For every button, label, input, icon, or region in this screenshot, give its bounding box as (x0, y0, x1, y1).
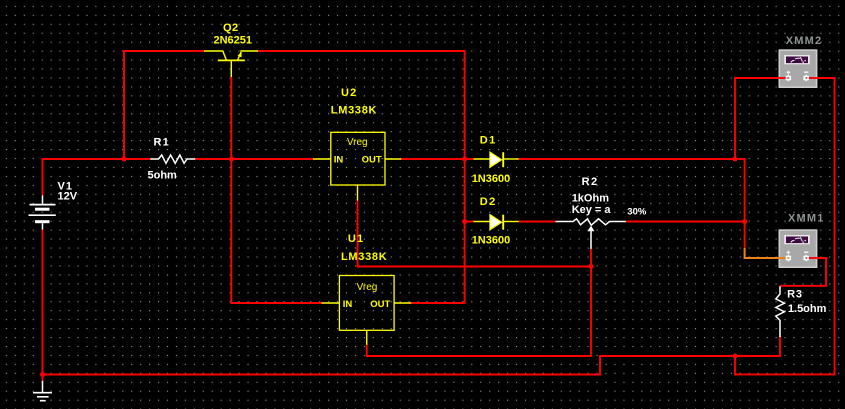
svg-text:1.5ohm: 1.5ohm (788, 303, 827, 315)
svg-text:R3: R3 (787, 288, 803, 300)
wire: wiper node down (590, 266, 592, 357)
node: Q2 base / main rail / U1 IN junction (229, 157, 234, 162)
svg-text:Vreg: Vreg (347, 137, 368, 148)
node: battery / ground rail junction (40, 372, 45, 377)
wire: D2 cathode to R2 (519, 221, 556, 223)
svg-text:U1: U1 (348, 233, 364, 245)
wire: node to D1 anode (464, 158, 474, 160)
svg-text:D1: D1 (480, 134, 497, 146)
wire: R2 wiper red stub (590, 249, 592, 268)
node: riser/main rail junction (122, 157, 127, 162)
svg-text:U2: U2 (341, 87, 357, 99)
wire: bottom right horizontal y=374.4 (734, 373, 835, 375)
op-amp U1 LM338K box (322, 276, 412, 345)
op-amp U2 LM338K box (313, 132, 401, 200)
transistor Q2 (204, 51, 258, 77)
node: D2 / U1 OUT junction (462, 219, 467, 224)
node: ground rail / XMM loop junction (733, 354, 738, 359)
multimeter XMM1 (778, 230, 817, 267)
wire: XMM2 left terminal stub (734, 77, 788, 79)
wire: XMM2 right terminal stub (806, 77, 836, 79)
resistor R1 (150, 155, 195, 163)
svg-text:R2: R2 (582, 176, 599, 188)
svg-text:XMM1: XMM1 (788, 213, 825, 225)
svg-text:5ohm: 5ohm (148, 170, 178, 182)
diode D1 (474, 152, 519, 167)
wire: Q2 base down to main rail (230, 77, 232, 160)
wire: vertical x=744.6 down to XMM1 (744, 158, 746, 249)
wire: node to D2 anode (464, 221, 474, 223)
wire: XMM1 right vertical down (825, 257, 827, 286)
wire: R1 to U2 IN (195, 158, 314, 160)
wire: main horizontal rail y=159 battery to R1 (42, 158, 151, 160)
svg-text:XMM2: XMM2 (786, 35, 823, 47)
wire: horizontal y=356 to U1 ADJ (367, 355, 592, 357)
wire: U2 ADJ vertical (357, 200, 359, 266)
wire: U1 ADJ vertical red (366, 345, 368, 357)
wire: XMM1 left terminal stub (orange) (745, 248, 788, 258)
svg-text:LM338K: LM338K (341, 251, 387, 263)
svg-text:IN: IN (334, 155, 344, 166)
svg-text:R1: R1 (154, 136, 170, 148)
node: U2 OUT / top rail / D1 junction (462, 157, 467, 162)
ground (33, 381, 52, 401)
wire: rail y=356 to R3 bottom (599, 355, 780, 357)
svg-text:1N3600: 1N3600 (472, 235, 511, 247)
wire: top rail right segment y=51 (258, 50, 466, 52)
wire: ground rail horizontal y=374.5 (42, 374, 601, 376)
multimeter XMM2 (778, 50, 817, 87)
wire: R2 right to XMM1 branch (626, 221, 746, 223)
wire: ground stub to ground symbol (42, 375, 44, 382)
svg-text:D2: D2 (480, 196, 497, 208)
node: R2 out / XMM1 junction (742, 219, 747, 224)
wire: to R3 top (780, 285, 827, 287)
wire: vertical riser x=124 to top rail (123, 50, 125, 160)
node: D1 out / XMM2 / XMM1 junction (733, 157, 738, 162)
potentiometer R2 (556, 219, 626, 249)
svg-text:2N6251: 2N6251 (214, 35, 253, 47)
battery V1 (29, 195, 56, 229)
svg-text:Q2: Q2 (223, 22, 239, 34)
wire: U1 OUT to vertical (411, 302, 466, 304)
wire: far right vertical x=834.5 up to XMM2 (834, 78, 836, 375)
wire: XMM1 right terminal stub (806, 257, 827, 259)
diode D2 (474, 215, 519, 230)
svg-text:Key = a: Key = a (572, 204, 612, 216)
wire: node to x=744.6 jog (734, 158, 745, 160)
wire: U2 ADJ horizontal to R2 wiper node (357, 266, 593, 268)
wire: D1 cathode to XMM node (519, 158, 736, 160)
wire: node x=735 down (734, 355, 736, 374)
wire: Q2 base node down to U1 IN row (230, 158, 232, 303)
svg-text:IN: IN (343, 299, 353, 310)
svg-text:1kOhm: 1kOhm (572, 193, 610, 205)
node: wiper / U2 ADJ / U1 ADJ junction (589, 264, 594, 269)
wire: XMM2 left vertical x=735 (734, 78, 736, 160)
svg-text:12V: 12V (58, 191, 78, 203)
wire: U1 IN horizontal (231, 302, 323, 304)
wire: vertical x=464.6 top rail to U1 OUT row (464, 50, 466, 303)
svg-text:Vreg: Vreg (357, 282, 378, 293)
wire: battery top vertical (42, 158, 44, 195)
svg-text:1N3600: 1N3600 (472, 173, 511, 185)
wire: battery bottom to ground rail (42, 229, 44, 375)
svg-text:30%: 30% (627, 206, 647, 217)
wire: top rail left segment y=51 (123, 50, 205, 52)
wire: R3 bottom red lead (779, 337, 781, 358)
svg-text:OUT: OUT (370, 299, 390, 310)
resistor R3 (776, 286, 785, 337)
svg-text:OUT: OUT (362, 155, 382, 166)
wire: U2 OUT to node (401, 158, 465, 160)
wire: step up x=600 (599, 356, 601, 376)
svg-text:LM338K: LM338K (331, 105, 377, 117)
